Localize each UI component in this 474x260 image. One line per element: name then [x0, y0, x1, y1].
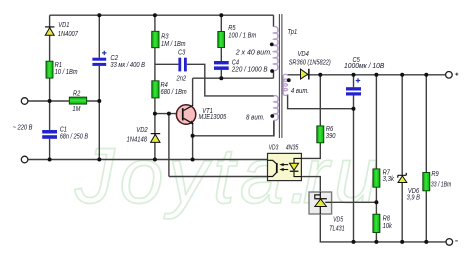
svg-text:33 мк / 400 В: 33 мк / 400 В [110, 62, 145, 69]
svg-text:3,3k: 3,3k [383, 176, 395, 183]
svg-text:Joyta.ru: Joyta.ru [74, 131, 383, 220]
svg-text:10k: 10k [383, 223, 393, 230]
svg-text:C3: C3 [178, 50, 185, 57]
svg-text:R1: R1 [55, 62, 62, 69]
svg-text:2n2: 2n2 [176, 76, 187, 83]
svg-text:C4: C4 [232, 60, 239, 67]
svg-text:1N4007: 1N4007 [58, 31, 79, 38]
svg-text:4 вит.: 4 вит. [291, 88, 309, 95]
svg-text:VD4: VD4 [298, 51, 309, 58]
svg-text:~ 220 В: ~ 220 В [13, 124, 33, 131]
svg-text:4N35: 4N35 [286, 144, 299, 151]
svg-text:MJE13005: MJE13005 [199, 114, 227, 121]
svg-text:R3: R3 [161, 33, 168, 40]
svg-text:10 / 1Вт: 10 / 1Вт [55, 69, 78, 76]
svg-text:R5: R5 [228, 25, 235, 32]
svg-text:VD3: VD3 [269, 144, 279, 151]
svg-text:1000мк / 10В: 1000мк / 10В [344, 63, 385, 70]
svg-text:R4: R4 [161, 82, 168, 89]
svg-text:SR360 (1N5822): SR360 (1N5822) [289, 60, 331, 67]
svg-text:2 x 40 вит.: 2 x 40 вит. [235, 49, 272, 56]
svg-text:390: 390 [326, 133, 336, 140]
svg-text:TL431: TL431 [329, 225, 345, 232]
svg-text:VD1: VD1 [58, 22, 69, 29]
svg-text:1N4148: 1N4148 [127, 136, 148, 143]
svg-text:680 / 1Вт: 680 / 1Вт [161, 89, 187, 96]
svg-text:220 / 1000 В: 220 / 1000 В [231, 67, 268, 74]
svg-text:VD2: VD2 [136, 127, 147, 134]
svg-text:68n / 250 В: 68n / 250 В [60, 133, 89, 140]
svg-text:R9: R9 [431, 171, 438, 178]
svg-text:8 вит.: 8 вит. [246, 115, 265, 122]
svg-text:1M / 1Вт: 1M / 1Вт [161, 41, 186, 48]
svg-text:3,9 В: 3,9 В [407, 195, 421, 202]
svg-text:33 / 1Вт: 33 / 1Вт [431, 181, 452, 188]
svg-text:R2: R2 [73, 90, 80, 97]
svg-text:R8: R8 [383, 216, 390, 223]
svg-text:1M: 1M [72, 106, 80, 113]
svg-text:Тр1: Тр1 [288, 29, 298, 36]
svg-text:VD5: VD5 [333, 217, 343, 224]
svg-text:100 / 1 Вт: 100 / 1 Вт [228, 32, 256, 39]
